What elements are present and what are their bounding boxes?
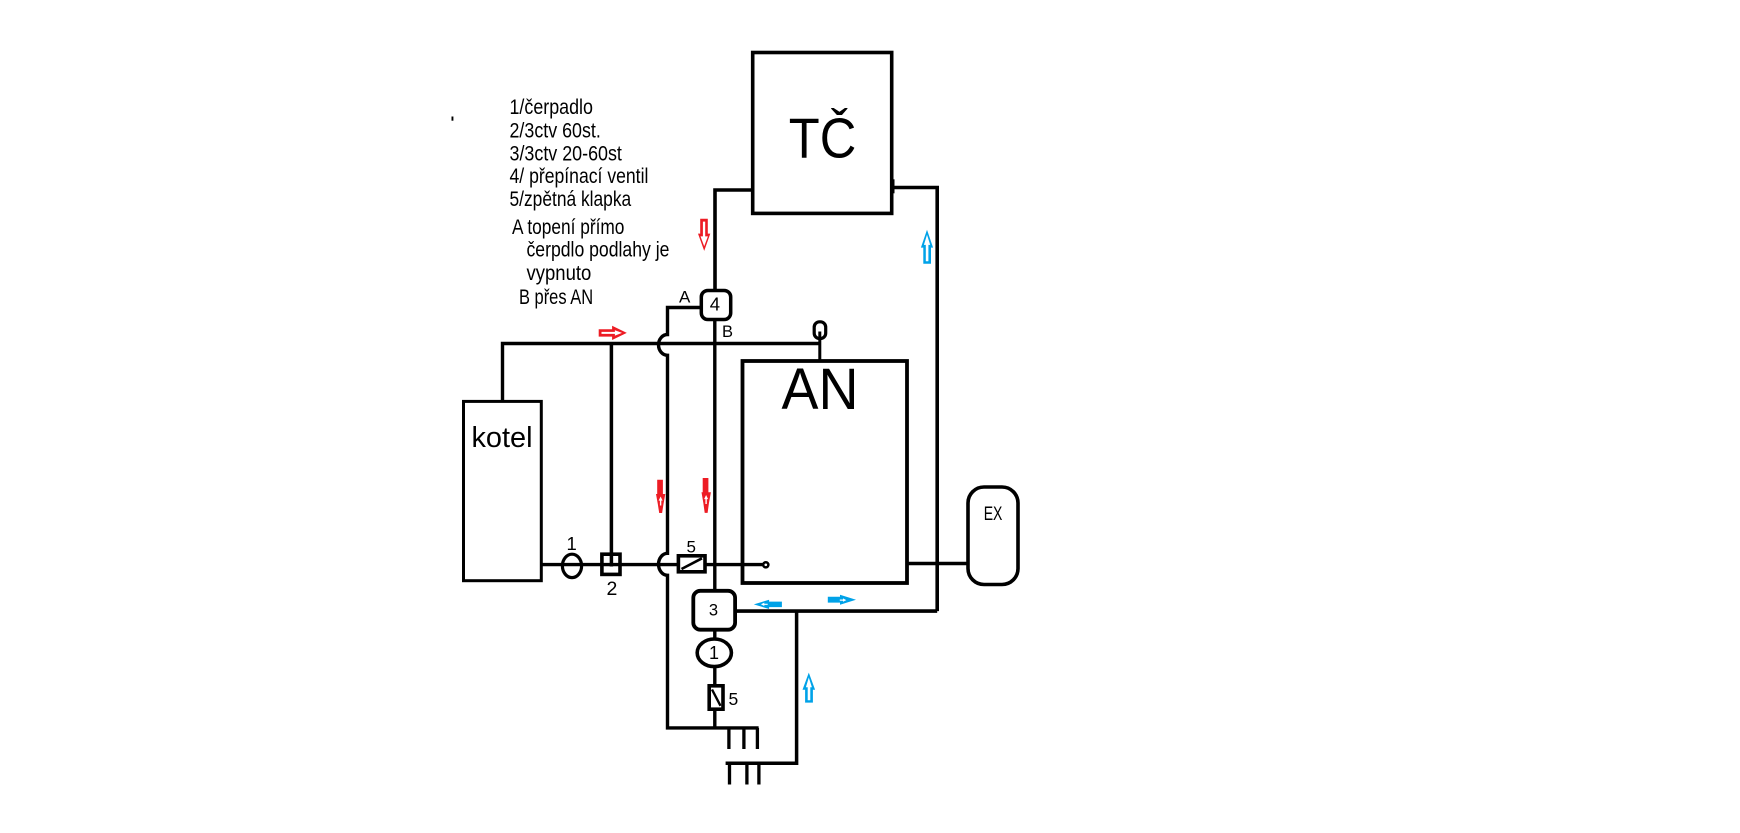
svg-text:3: 3 [709,602,718,620]
wire TC supply left [715,190,753,291]
svg-text:5: 5 [729,689,739,709]
wire B riser (valve4 to valve3) [713,320,716,592]
legend text [510,96,670,309]
pump 1 (kotel line) [562,554,581,577]
svg-text:TČ: TČ [789,106,857,170]
heat pump box TC [753,53,892,214]
arrow red hollow right (kotel top line) [599,326,627,340]
svg-text:1: 1 [709,643,719,663]
svg-text:A: A [679,288,691,307]
svg-text:B: B [722,323,733,341]
expansion vessel EX [968,487,1018,585]
svg-text:4: 4 [710,293,720,314]
svg-text:5/zpětná klapka: 5/zpětná klapka [510,188,632,211]
wire pump chain riser (valve3 down to radiator line) [713,630,716,728]
sensor capsule on AN [814,322,826,362]
valve 4 (switching valve) [701,291,730,320]
wire kotel output line [541,563,763,566]
svg-text:B přes AN: B přes AN [519,286,593,309]
arrow blue solid right (valve3 line) [828,595,856,605]
svg-text:3/3ctv 20-60st: 3/3ctv 20-60st [510,143,623,166]
svg-text:2/3ctv 60st.: 2/3ctv 60st. [510,120,601,143]
arrow blue solid left (valve3 line) [754,600,782,609]
pump 1 (floor circuit) [697,639,731,667]
check valve 5 (floor circuit) [709,686,723,709]
valve 2 (3-way) [602,554,620,574]
wire A branch (valve4 A port, hops over two lines, down to radiators) [659,308,759,728]
wire kotel riser and top line to AN sensor [503,344,820,402]
radiator 1 ticks [729,728,758,749]
arrow red solid down left (A branch) [656,480,665,513]
radiator 2 ticks [730,763,759,784]
wire TC return right [892,188,938,612]
wire return riser and radiator 2 line [726,611,797,763]
boiler kotel [464,401,542,580]
svg-text:5: 5 [687,538,696,557]
accumulator tank AN [743,357,908,583]
valve 3 (mixing valve) [693,591,735,630]
node dot inside AN [763,562,768,567]
svg-text:4/ přepínací ventil: 4/ přepínací ventil [510,165,649,188]
svg-text:A topení přímo: A topení přímo [512,216,624,239]
stray mark [452,117,454,121]
wire valve2 riser [610,344,614,567]
svg-text:čerpdlo podlahy je: čerpdlo podlahy je [527,239,670,262]
arrow red hollow down (TC supply) [698,219,710,251]
check valve 5 (kotel line) [678,556,705,572]
svg-text:1/čerpadlo: 1/čerpadlo [510,96,593,119]
arrow blue hollow up (TC return) [921,230,933,264]
svg-text:EX: EX [984,503,1003,525]
wire AN to EX [907,562,967,566]
svg-text:AN: AN [782,357,859,422]
arrow blue hollow up (return riser) [803,673,816,703]
svg-text:2: 2 [607,578,618,600]
wire valve3 to right riser [735,609,937,613]
arrow red solid down right (B riser) [702,478,711,513]
wire stub at TC right port [892,179,895,193]
svg-text:1: 1 [567,533,577,554]
svg-text:vypnuto: vypnuto [527,262,592,285]
svg-text:kotel: kotel [472,422,533,454]
